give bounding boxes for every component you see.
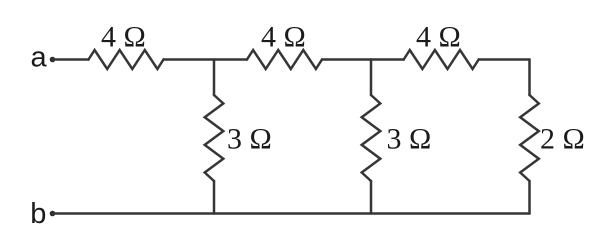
bottom rail wire b to right edge (53, 212, 530, 215)
resistor R3 (4 ohm, top-right) (404, 50, 479, 69)
wire R4 to bottom rail (213, 181, 216, 214)
wire stub node C down (213, 60, 216, 96)
resistor R1 (4 ohm, top-left) (89, 50, 164, 69)
wire a to R1 (53, 58, 89, 61)
svg-text:4 Ω: 4 Ω (101, 20, 146, 53)
wire R2 to node D (322, 58, 404, 61)
node a terminal dot (50, 57, 56, 63)
wire right edge bottom stub (528, 181, 531, 214)
wire stub node D down (370, 60, 373, 96)
resistor R6 (2 ohm, right branch) (520, 95, 539, 181)
resistor R4 (3 ohm, left shunt) (205, 95, 224, 181)
wire R5 to bottom rail (370, 181, 373, 214)
svg-text:b: b (30, 198, 46, 230)
svg-text:3 Ω: 3 Ω (387, 123, 432, 156)
svg-text:a: a (31, 41, 48, 73)
wire R3 to top-right corner (479, 58, 530, 61)
svg-text:2 Ω: 2 Ω (540, 123, 585, 156)
resistor R2 (4 ohm, top-middle) (247, 50, 322, 69)
resistor R5 (3 ohm, middle shunt) (362, 95, 381, 181)
wire R1 to node C (164, 58, 248, 61)
svg-text:3 Ω: 3 Ω (227, 123, 272, 156)
wire right edge top stub (528, 60, 531, 96)
svg-text:4 Ω: 4 Ω (416, 20, 461, 53)
node b terminal dot (50, 211, 56, 217)
svg-text:4 Ω: 4 Ω (261, 20, 306, 53)
